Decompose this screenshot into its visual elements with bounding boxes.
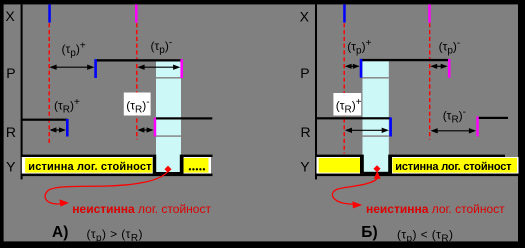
signal R rising edge (magenta) right (476, 117, 479, 137)
Y bar1 white underlay right (317, 157, 361, 174)
Y bar2 dots left (189, 168, 205, 170)
top border / signal X high line (0, 0, 525, 4)
Y bar1 white underlay left (22, 157, 153, 174)
signal R high line 1 right (316, 117, 390, 119)
svg-text:X: X (5, 8, 15, 24)
signal R high line 1 left (22, 119, 68, 121)
red dashed timing line 1 right (343, 23, 345, 153)
Y bottom line right (316, 174, 519, 177)
red dashed timing line 1 left (48, 23, 50, 145)
arrow (tR)+ right (345, 128, 389, 133)
Y black edge A left (153, 155, 156, 174)
arrow (tP)+ right (345, 64, 360, 69)
gray P low level through band right (363, 77, 389, 79)
signal P rising edge (blue) left (94, 59, 97, 78)
svg-text:P: P (300, 65, 309, 81)
svg-text:неистинна лог. стойност: неистинна лог. стойност (366, 202, 505, 216)
Y bar2 white underlay left (184, 157, 211, 174)
Y bar1 top line left (22, 155, 153, 157)
svg-text:истинна лог. стойност: истинна лог. стойност (28, 161, 152, 173)
red callout curve left (45, 172, 168, 204)
Y bar2 yellow left (184, 158, 209, 173)
axis line left panel (21, 4, 23, 179)
red diamond marker left (164, 166, 171, 173)
signal X falling edge tick (magenta) right (428, 4, 431, 22)
red callout arrowhead left (59, 199, 69, 206)
Y bar2 white underlay right (392, 157, 519, 174)
Y bar1 yellow left (25, 158, 152, 173)
signal P falling edge (magenta) right (448, 59, 451, 78)
signal P falling edge (magenta) left (180, 59, 183, 78)
svg-text:Y: Y (300, 159, 310, 175)
Y bar1 yellow right (319, 158, 360, 173)
red diamond marker right (373, 165, 380, 172)
svg-text:Y: Y (6, 159, 16, 175)
svg-text:R: R (301, 124, 311, 140)
cyan invalid band left (156, 61, 181, 173)
Y bar2 yellow right (393, 158, 518, 173)
red callout right arrowhead right (352, 201, 362, 208)
Y bar1 top line right (316, 155, 361, 157)
Y bar2 top line right (392, 155, 505, 157)
axis line right panel (315, 4, 317, 179)
bottom border (0, 241, 525, 248)
white box behind (tR)- left (124, 93, 151, 116)
Y black edge A right (360, 155, 364, 174)
svg-text:А): А) (52, 224, 68, 241)
arrow (tP)- right (430, 64, 448, 69)
signal R high line 2 left (156, 117, 212, 119)
svg-text:Б): Б) (361, 224, 377, 241)
left border (0, 0, 4, 248)
black under cyan cell left (156, 172, 181, 174)
Y bar2 top line left (184, 155, 213, 157)
gray R low level through band left (156, 135, 181, 137)
Y black edge B left (180, 155, 184, 174)
signal R high line 2 right (479, 117, 508, 119)
right border (518, 0, 525, 248)
signal P rising edge (blue) right (360, 59, 363, 78)
signal P high line right (361, 59, 449, 61)
red dashed timing line 2 left (136, 23, 138, 139)
svg-text:R: R (6, 124, 16, 140)
Y black edge B right (388, 155, 392, 174)
arrow (tP)+ left (49, 65, 94, 70)
white box behind (tR)+ right (333, 93, 361, 116)
signal R rising edge (magenta) left (154, 118, 157, 137)
arrow (tR)+ left (49, 127, 66, 132)
signal X falling edge tick (magenta) left (135, 4, 138, 22)
red callout up arrowhead right (374, 171, 381, 179)
signal X rising edge tick (blue) right (343, 4, 346, 22)
cyan invalid band right (363, 61, 389, 173)
arrow (tR)- left (137, 127, 153, 132)
gray R low level through band right (363, 135, 389, 137)
red callout curve right (332, 179, 377, 205)
signal R falling edge (blue) right (389, 117, 392, 136)
gray P low level through band left (156, 77, 181, 79)
arrow (tR)- right (431, 128, 477, 133)
svg-text:P: P (6, 65, 15, 81)
black under cyan cell right (363, 172, 389, 174)
Y bottom line left (22, 174, 213, 177)
svg-text:истинна лог. стойност: истинна лог. стойност (395, 161, 512, 173)
arrow (tP)- left (137, 65, 180, 70)
signal X rising edge tick (blue) left (48, 4, 51, 22)
red dashed timing line 2 right (429, 23, 431, 139)
signal P high line left (95, 59, 183, 61)
signal R falling edge (blue) left (66, 119, 69, 137)
svg-text:неистинна лог. стойност: неистинна лог. стойност (72, 202, 211, 216)
svg-text:X: X (300, 9, 310, 25)
